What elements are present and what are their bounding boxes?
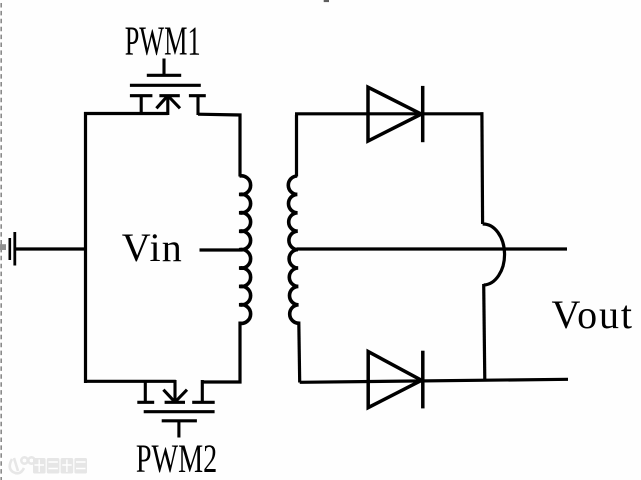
Q1 drain contact (196, 96, 199, 115)
wire hop over output (483, 224, 505, 285)
battery tall bar (13, 232, 16, 266)
transistor Q1 (top MOSFET, PWM1) (130, 59, 206, 116)
Q1 channel line (130, 84, 201, 87)
bottom wire Vout- (300, 379, 568, 382)
Q2 body bar (165, 401, 185, 404)
svg-text:PWM1: PWM1 (125, 18, 201, 65)
Q2 channel line (144, 410, 215, 413)
wire battery to left rail (15, 247, 87, 250)
wire Vin tap to primary center (200, 248, 241, 251)
wire Q1 drain to primary (198, 114, 240, 176)
Q2 source contact (144, 380, 147, 402)
Q1 body arrow shaft (166, 96, 169, 115)
secondary top lead (295, 115, 298, 177)
transistor Q2 (bottom MOSFET, PWM2) (137, 380, 214, 438)
Q1 body arrowhead (156, 96, 167, 108)
scan artifact top tick (324, 0, 329, 2)
right rail upper (480, 112, 484, 224)
diode D2 (368, 351, 423, 409)
Q2 source bar (137, 401, 154, 404)
scan border dashed left edge (0, 3, 2, 480)
left rail (84, 112, 87, 383)
Q1 source contact (140, 96, 143, 115)
svg-text:Vin: Vin (122, 225, 183, 270)
Q1 drain bar (189, 94, 206, 97)
battery short bar (9, 238, 12, 260)
Q1 gate lead (162, 59, 165, 77)
Q1 body bar (159, 94, 179, 97)
diode D1 (368, 86, 423, 142)
Q2 drain bar (192, 401, 215, 404)
Q1 source bar (130, 94, 153, 97)
secondary bottom lead (297, 322, 301, 383)
Q2 gate lead (177, 421, 180, 438)
wire Q2 source (84, 380, 176, 383)
Q2 drain contact (201, 380, 204, 402)
Q2 body arrow shaft (173, 380, 176, 402)
Q2 body arrowhead (163, 390, 174, 402)
transformer primary winding (239, 176, 250, 324)
battery gray stub (0, 244, 6, 250)
wire primary bottom (202, 322, 240, 383)
transformer secondary winding (288, 176, 299, 323)
wire secondary top to right rail (295, 112, 483, 115)
output wire Vout+ (297, 247, 568, 250)
wire Q1 source (84, 112, 168, 115)
svg-text:PWM2: PWM2 (136, 436, 217, 480)
svg-text:Vout: Vout (552, 292, 634, 337)
Q2 gate plate (162, 419, 197, 422)
watermark logo bottom-left (10, 457, 35, 473)
right rail lower (484, 284, 485, 381)
Q1 gate plate (147, 74, 181, 77)
